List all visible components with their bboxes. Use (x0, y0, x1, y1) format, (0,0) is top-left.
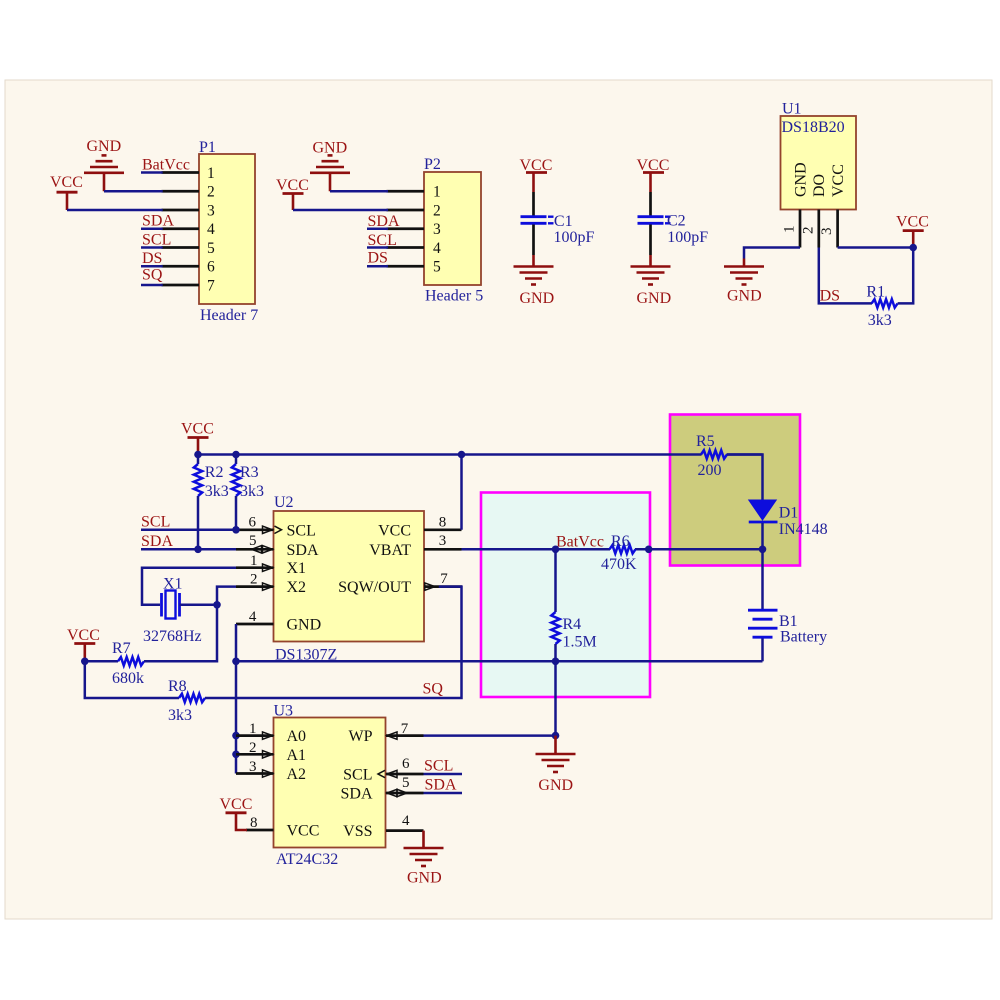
wire U1 GND (744, 248, 800, 259)
power port VCC at U1 (896, 213, 929, 244)
wire SCL to P2.4 (367, 232, 397, 249)
crystal X1 32768Hz (143, 576, 202, 646)
svg-text:R6: R6 (611, 533, 630, 550)
U2 pin 8 VCC (424, 515, 462, 531)
svg-text:DO: DO (811, 174, 828, 197)
junction GND bus R4 (552, 658, 560, 666)
svg-text:VCC: VCC (276, 177, 309, 194)
svg-text:R7: R7 (112, 640, 131, 657)
wire VCC to R7 (85, 660, 118, 663)
svg-text:6: 6 (207, 259, 215, 276)
svg-text:VCC: VCC (378, 522, 411, 539)
wire U2 GND down (235, 624, 238, 661)
junction VCC R7 (81, 658, 89, 666)
svg-text:7: 7 (401, 721, 409, 737)
junction VCC rail at R3 (232, 451, 240, 459)
svg-text:6: 6 (402, 756, 410, 772)
wire U1 VCC (838, 246, 914, 249)
resistor R3 3k3 (232, 455, 264, 530)
wire VCC to P1.3 (67, 209, 163, 212)
svg-text:C1: C1 (554, 213, 573, 230)
svg-text:DS: DS (820, 287, 840, 304)
svg-text:GND: GND (727, 287, 762, 304)
svg-text:470K: 470K (601, 556, 637, 573)
U3 pin 4 VSS (386, 813, 424, 831)
svg-text:GND: GND (87, 138, 122, 155)
svg-text:SQ: SQ (142, 267, 163, 284)
wire VCC down to R8 (85, 661, 179, 698)
svg-text:U2: U2 (274, 494, 294, 511)
junction BatVcc R4 (552, 546, 560, 554)
svg-text:VCC: VCC (67, 627, 100, 644)
svg-text:R4: R4 (563, 616, 582, 633)
svg-text:VCC: VCC (830, 164, 847, 197)
wire crystal to X2 node (180, 604, 218, 607)
wire address pins bus (235, 661, 238, 773)
P2 pins 1-5 (387, 191, 425, 266)
olive highlight box (charge path R5 D1) (670, 415, 800, 566)
wire WP to GND node (424, 734, 556, 737)
resistor R8 3k3 (168, 678, 205, 724)
IC U2 DS1307Z (274, 494, 425, 664)
capacitor C2 100pF (631, 157, 709, 307)
svg-text:GND: GND (538, 777, 573, 794)
svg-text:AT24C32: AT24C32 (276, 851, 338, 868)
power port VCC at P2 (276, 177, 309, 210)
junction U1 VCC node (909, 244, 917, 252)
U3 pin 5 SDA (386, 775, 424, 797)
junction WP GND (552, 732, 560, 740)
wire D1 to battery node (761, 523, 764, 549)
connector P2 Header 5 (424, 156, 483, 305)
svg-text:U3: U3 (274, 703, 294, 720)
svg-text:2: 2 (800, 227, 816, 235)
svg-text:SQ: SQ (423, 681, 444, 698)
resistor R5 200 (696, 433, 727, 479)
power port VCC at P1 (50, 174, 83, 210)
wire DS to P2.5 (367, 250, 388, 267)
svg-text:Header 5: Header 5 (425, 288, 483, 305)
U2 pin 7 SQW/OUT (424, 571, 462, 590)
svg-text:BatVcc: BatVcc (556, 534, 604, 551)
svg-text:X2: X2 (287, 579, 307, 596)
junction VCC rail to U2 pin8 (458, 451, 466, 459)
battery B1 (748, 610, 827, 645)
wire R1 to VCC node (898, 248, 914, 304)
svg-text:3k3: 3k3 (205, 483, 229, 500)
junction A1 (232, 751, 240, 759)
svg-text:3: 3 (819, 228, 835, 236)
wire U1 DO to DS (819, 248, 872, 305)
U1 pins 1 2 3 (782, 210, 838, 248)
junction VCC rail at R2 (194, 451, 202, 459)
svg-text:VCC: VCC (287, 822, 320, 839)
svg-text:R8: R8 (168, 678, 187, 695)
power port VCC above U2 (181, 421, 214, 455)
resistor R1 3k3 (866, 284, 897, 330)
U3 pin 1 A0 (236, 721, 274, 739)
svg-text:5: 5 (402, 775, 410, 791)
svg-text:3: 3 (433, 221, 441, 238)
wire battery to GND bus (761, 639, 764, 662)
U3 pin 2 A1 (236, 740, 274, 758)
svg-text:8: 8 (250, 815, 258, 831)
junction SDA R2 (194, 546, 202, 554)
svg-text:2: 2 (249, 740, 257, 756)
diode D1 IN4148 (749, 500, 828, 538)
svg-text:3k3: 3k3 (168, 707, 192, 724)
svg-text:GND: GND (287, 617, 322, 634)
svg-text:7: 7 (207, 277, 215, 294)
svg-text:100pF: 100pF (667, 229, 708, 246)
svg-text:200: 200 (698, 462, 722, 479)
svg-text:P1: P1 (199, 139, 216, 156)
wire GND node down (554, 661, 557, 735)
resistor R6 470K (601, 533, 637, 573)
svg-text:SCL: SCL (142, 232, 171, 249)
svg-text:Battery: Battery (780, 629, 827, 646)
resistor R4 1.5M (551, 549, 596, 661)
ground symbol at P2 (310, 140, 350, 192)
svg-text:2: 2 (250, 572, 258, 588)
resistor R7 680k (112, 640, 144, 687)
svg-text:A1: A1 (287, 747, 307, 764)
P1 pins 1-7 (162, 173, 200, 286)
svg-text:6: 6 (249, 515, 257, 531)
svg-text:4: 4 (433, 240, 441, 257)
U2 pin 5 SDA (236, 533, 274, 553)
svg-text:D1: D1 (779, 505, 799, 522)
power port VCC at U3 (220, 796, 253, 830)
svg-text:4: 4 (249, 609, 257, 625)
ground symbol right of U3 (536, 736, 576, 794)
wire VCC rail (198, 453, 763, 456)
U3 pin 3 A2 (236, 759, 274, 777)
svg-text:32768Hz: 32768Hz (143, 628, 202, 645)
svg-text:1: 1 (782, 226, 798, 234)
svg-text:SQW/OUT: SQW/OUT (338, 579, 411, 596)
svg-text:3k3: 3k3 (240, 483, 264, 500)
svg-text:R5: R5 (696, 433, 715, 450)
svg-text:3: 3 (249, 759, 257, 775)
svg-text:VBAT: VBAT (369, 542, 411, 559)
svg-text:SDA: SDA (368, 213, 400, 230)
svg-text:X1: X1 (287, 560, 307, 577)
svg-text:A2: A2 (287, 766, 307, 783)
U2 pin 1 X1 (236, 553, 274, 571)
junction R6 right (645, 546, 653, 554)
svg-text:Header 7: Header 7 (200, 307, 258, 324)
svg-text:R2: R2 (205, 464, 224, 481)
svg-text:3k3: 3k3 (868, 312, 892, 329)
svg-text:VSS: VSS (343, 823, 372, 840)
svg-text:R3: R3 (240, 464, 259, 481)
wire VBAT to battery node (462, 534, 763, 551)
junction SCL R3 (232, 526, 240, 534)
IC U3 AT24C32 (274, 703, 386, 869)
U2 pin 2 X2 (236, 572, 274, 591)
svg-text:R1: R1 (866, 284, 885, 301)
wire VCC to P2.2 (293, 209, 388, 212)
junction A0 (232, 732, 240, 740)
svg-text:100pF: 100pF (554, 229, 595, 246)
svg-text:5: 5 (433, 259, 441, 276)
connector P1 Header 7 (199, 139, 258, 324)
ground symbol at U3 VSS (404, 831, 444, 887)
svg-text:4: 4 (207, 221, 215, 238)
svg-text:DS18B20: DS18B20 (782, 119, 845, 136)
U2 pin 3 VBAT (424, 533, 462, 550)
svg-text:SCL: SCL (368, 232, 397, 249)
svg-text:DS: DS (142, 250, 162, 267)
capacitor C1 100pF (514, 157, 595, 307)
svg-text:GND: GND (407, 870, 442, 887)
cyan highlight box (battery divider) (481, 493, 650, 698)
junction crystal node (213, 601, 221, 609)
wire R7 to crystal node (144, 605, 217, 662)
wire SDA to P1.4 (141, 213, 174, 230)
svg-text:680k: 680k (112, 670, 144, 687)
wire SCL net to U2 (141, 513, 236, 530)
svg-text:X1: X1 (163, 576, 183, 593)
wire U2 X1 to crystal (142, 568, 236, 605)
svg-text:5: 5 (249, 533, 257, 549)
wire SCL to P1.5 (141, 232, 171, 249)
svg-text:1.5M: 1.5M (563, 634, 597, 651)
svg-text:2: 2 (433, 202, 441, 219)
wire BatVcc to P1.1 (141, 157, 190, 174)
svg-text:2: 2 (207, 184, 215, 201)
junction GND bus left (232, 658, 240, 666)
svg-text:A0: A0 (287, 728, 307, 745)
svg-text:GND: GND (520, 290, 555, 307)
svg-text:1: 1 (433, 184, 441, 201)
wire U3 SCL stub (424, 758, 463, 775)
svg-text:U1: U1 (782, 101, 802, 118)
svg-text:VCC: VCC (181, 421, 214, 438)
svg-text:VCC: VCC (896, 213, 929, 230)
svg-text:B1: B1 (779, 613, 798, 630)
wire X2 node to U2 X2 (217, 587, 236, 605)
svg-text:4: 4 (402, 813, 410, 829)
wire GND bus (236, 660, 763, 663)
wire GND to P2.1 (330, 190, 388, 193)
svg-text:SDA: SDA (287, 542, 319, 559)
svg-text:SDA: SDA (425, 777, 457, 794)
svg-text:3: 3 (207, 202, 215, 219)
svg-text:C2: C2 (667, 213, 686, 230)
svg-text:VCC: VCC (220, 796, 253, 813)
resistor R2 3k3 (194, 455, 229, 550)
wire R5 to D1 (727, 455, 763, 501)
svg-text:IN4148: IN4148 (779, 521, 828, 538)
svg-text:SDA: SDA (340, 786, 372, 803)
svg-text:SDA: SDA (142, 213, 174, 230)
U3 pin 7 WP (386, 721, 424, 739)
U3 pin 6 SCL (378, 756, 424, 778)
svg-text:BatVcc: BatVcc (142, 157, 190, 174)
svg-text:SCL: SCL (287, 522, 316, 539)
power port VCC at R7 (67, 627, 100, 661)
svg-text:1: 1 (249, 721, 257, 737)
wire SQ to P1.7 (141, 267, 163, 286)
ground symbol at P1 (84, 138, 124, 191)
svg-text:3: 3 (439, 533, 447, 549)
svg-text:GND: GND (793, 162, 810, 197)
svg-text:1: 1 (207, 165, 215, 182)
svg-text:SCL: SCL (343, 767, 372, 784)
wire battery node down (761, 549, 764, 609)
svg-text:SCL: SCL (141, 513, 170, 530)
wire U3 SDA stub (424, 777, 463, 794)
svg-text:WP: WP (349, 728, 373, 745)
wire GND to P1.2 (104, 190, 163, 193)
svg-text:SCL: SCL (424, 758, 453, 775)
IC U1 DS18B20 (781, 101, 857, 210)
wire SDA net to U2 (141, 533, 236, 550)
wire SDA to P2.3 (367, 213, 400, 230)
U3 pin 8 VCC (246, 815, 274, 831)
svg-text:GND: GND (637, 290, 672, 307)
wire SQ net to U2 pin7 (205, 587, 462, 698)
svg-text:1: 1 (250, 553, 258, 569)
svg-text:8: 8 (439, 515, 447, 531)
U2 pin 4 GND (236, 609, 274, 625)
svg-text:5: 5 (207, 240, 215, 257)
svg-text:SDA: SDA (141, 533, 173, 550)
svg-text:VCC: VCC (50, 174, 83, 191)
svg-text:GND: GND (313, 140, 348, 157)
svg-text:P2: P2 (424, 156, 441, 173)
wire U2 pin8 to VCC rail (460, 455, 463, 530)
ground symbol at U1 (724, 259, 764, 305)
svg-text:DS: DS (368, 250, 388, 267)
wire DS to P1.6 (141, 250, 163, 267)
U2 pin 6 SCL (236, 515, 282, 534)
svg-text:7: 7 (440, 571, 448, 587)
junction battery node (759, 546, 767, 554)
